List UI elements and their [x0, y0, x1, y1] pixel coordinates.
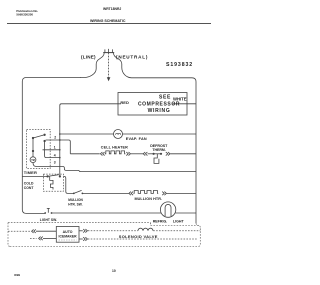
svg-text:WRT18NRJ: WRT18NRJ: [103, 7, 121, 11]
dashed edge step: [150, 223, 152, 226]
svg-text:WIRING: WIRING: [148, 108, 171, 114]
icemaker output wire 2: [79, 238, 83, 240]
defrost thermostat contact dots: [153, 153, 155, 155]
wire: plug to neutral bus: [113, 53, 131, 78]
junction t2: [59, 139, 61, 141]
wire cold control to mullion switch: [63, 176, 73, 193]
wire terminal 4: [43, 149, 60, 151]
mullion heater element: [133, 191, 158, 194]
svg-text:LIGHT: LIGHT: [173, 219, 185, 223]
svg-text:THERM.: THERM.: [152, 148, 165, 152]
timer pivot dot: [32, 137, 34, 139]
power plug prongs: [105, 49, 113, 53]
timer switch arm: [33, 135, 45, 138]
svg-text:TM: TM: [31, 159, 34, 162]
wire: neutral bus (top + right side): [132, 78, 197, 223]
connector chevrons: [83, 237, 87, 241]
wire cell heater feed: [70, 153, 99, 155]
icemaker dashed enclosure top edge: [8, 223, 200, 247]
timer contact dot (terminal 2): [43, 134, 45, 136]
junction fan/vertical: [59, 133, 61, 135]
svg-text:4: 4: [54, 153, 56, 157]
wire light switch to lamp: [52, 212, 162, 214]
svg-text:CELL HEATER: CELL HEATER: [101, 146, 128, 150]
timer pivot lower dot: [32, 150, 34, 152]
bulb filament: [165, 204, 171, 216]
icemaker feed wire dashed: [8, 230, 30, 232]
cold control arm: [48, 175, 59, 177]
header publication text: [16, 9, 38, 16]
wire mullion switch to heater: [82, 192, 128, 194]
light switch contact: [51, 212, 53, 214]
connector chevrons: [143, 152, 147, 156]
wire to icemaker box: [36, 230, 56, 232]
label MULLION HTR. SW.: [68, 198, 83, 206]
cold control right contact: [59, 175, 61, 177]
svg-text:TIMER: TIMER: [24, 170, 37, 175]
light switch contact: [44, 212, 46, 214]
cold control bellows: [50, 176, 53, 189]
svg-text:10: 10: [112, 269, 116, 273]
wire line bus to cold control: [22, 175, 47, 177]
evap fan motor winding squiggle: [116, 133, 121, 135]
svg-text:SOLENOID VALVE: SOLENOID VALVE: [119, 234, 158, 239]
connector chevrons: [129, 192, 133, 196]
svg-text:SEE: SEE: [159, 95, 171, 101]
cold control dashed box: [43, 174, 63, 191]
dashed wire to solenoid: [88, 230, 138, 232]
label COLD CONT: [24, 182, 35, 190]
dashed wire 2: [88, 238, 198, 240]
wire defrost thermostat to neutral: [170, 153, 196, 155]
wire: compressor line feed: [60, 104, 121, 176]
second feed chevrons: [30, 237, 37, 239]
timer motor TM: [30, 157, 36, 163]
connector chevrons: [166, 152, 170, 156]
wire to defrost thermostat: [131, 153, 143, 155]
cold control left contact: [46, 175, 48, 177]
connector chevrons: [100, 152, 104, 156]
svg-text:2: 2: [54, 135, 56, 139]
svg-text:8/99: 8/99: [14, 273, 20, 277]
svg-text:S193832: S193832: [166, 62, 193, 68]
wire into defrost thermostat: [148, 153, 154, 155]
wire mullion heater to neutral: [167, 192, 196, 194]
svg-text:REFRIG.: REFRIG.: [153, 219, 168, 223]
wire terminal 2 to defrost heater drop: [46, 140, 71, 154]
refrigerator light bulb: [160, 202, 175, 217]
cell heater element: [105, 151, 126, 154]
timer internal wire pivot chain: [32, 138, 34, 151]
wire: evap fan feed: [60, 133, 114, 135]
wire terminal 3 timer motor to neutral return: [33, 163, 196, 172]
svg-text:CONT: CONT: [24, 186, 35, 190]
ground arrowhead: [107, 77, 111, 81]
svg-text:(LINE): (LINE): [81, 55, 96, 60]
wire: plug to line bus: [80, 53, 104, 78]
wire pivot to timer motor: [32, 151, 34, 157]
dashed wire solenoid to right edge: [153, 230, 200, 232]
wire to icemaker box: [43, 237, 56, 239]
label AUTO ICEMAKER: [59, 230, 78, 238]
connector chevrons: [32, 229, 36, 233]
compressor box: [118, 93, 187, 116]
wire: compressor neutral stub: [173, 103, 197, 105]
auto icemaker box: [56, 227, 79, 243]
mullion heater switch arm: [74, 190, 82, 193]
power plug base: [103, 52, 114, 54]
svg-text:5995330250: 5995330250: [16, 12, 33, 16]
svg-text:EVAP. FAN: EVAP. FAN: [126, 137, 147, 141]
svg-text:COMPRESSOR: COMPRESSOR: [138, 101, 180, 107]
label DEFROST THERM.: [150, 144, 168, 152]
defrost thermostat sensing element: [154, 154, 159, 164]
connector chevrons: [162, 192, 166, 196]
label SEE COMPRESSOR WIRING: [138, 95, 180, 115]
icemaker part no dashes: [59, 239, 77, 241]
wire: line bus (top + left side + to light switch): [22, 78, 80, 214]
svg-text:RED: RED: [120, 100, 129, 105]
defrost timer dashed box: [27, 130, 51, 169]
mullion heater switch contact: [82, 193, 84, 195]
svg-text:1: 1: [54, 146, 56, 150]
svg-text:MULLION HTR.: MULLION HTR.: [135, 197, 163, 201]
timer contact dot (terminal 1): [43, 140, 45, 142]
svg-text:3: 3: [54, 160, 56, 164]
solenoid valve coil: [138, 228, 153, 231]
svg-text:HTR. SW.: HTR. SW.: [68, 202, 82, 206]
mullion heater switch contact: [73, 193, 75, 195]
svg-text:LIGHT SW.: LIGHT SW.: [40, 218, 57, 222]
icemaker dashed enclosure right edge: [199, 228, 201, 247]
timer internal wire contact to T4: [45, 141, 60, 158]
icemaker output wire 1: [79, 230, 83, 232]
evap fan motor: [114, 130, 123, 139]
connector chevrons: [126, 152, 130, 156]
svg-text:ICEMAKER: ICEMAKER: [59, 234, 78, 238]
connector chevrons: [83, 229, 87, 233]
wire: evap fan to neutral: [123, 133, 197, 135]
header rule: [7, 23, 211, 25]
ground lead: [108, 53, 110, 78]
icemaker dashed enclosure left edge: [8, 223, 10, 247]
icemaker dashed enclosure bottom edge: [10, 245, 199, 247]
wire lamp to neutral: [175, 212, 196, 214]
svg-text:(NEUTRAL): (NEUTRAL): [116, 55, 148, 60]
svg-text:WIRING SCHEMATIC: WIRING SCHEMATIC: [90, 19, 126, 23]
svg-text:MULLION: MULLION: [68, 198, 83, 202]
light switch plunger: [47, 208, 50, 212]
